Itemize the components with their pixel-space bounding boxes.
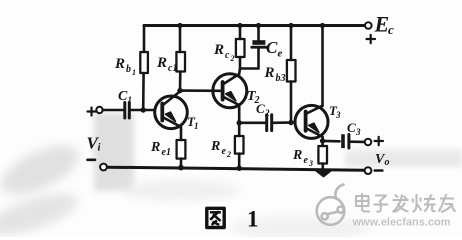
node rail-Rc1 bbox=[177, 23, 182, 28]
capacitor C2 bbox=[265, 115, 268, 131]
wire Rb1 bottom bbox=[142, 73, 145, 110]
wire top supply rail bbox=[144, 24, 365, 27]
svg-text:1: 1 bbox=[128, 95, 133, 105]
svg-text:3: 3 bbox=[335, 110, 341, 120]
wire Rb3 bottom bbox=[290, 82, 293, 123]
zi bbox=[374, 196, 389, 212]
watermark text: dian zi fa shao you (simplified glyph shapes) bbox=[356, 193, 456, 212]
wire T3 collector bbox=[321, 26, 324, 107]
wire T1 collector to T2 base bbox=[180, 89, 221, 92]
wire C2 to T3 base bbox=[273, 121, 295, 124]
hanzi TU (figure) drawn as strokes bbox=[207, 208, 224, 227]
svg-text:C: C bbox=[347, 120, 356, 135]
wire Re3 to ground bbox=[321, 164, 324, 170]
wire Rc2 bottom to T2 collector bbox=[239, 57, 240, 75]
svg-text:C: C bbox=[256, 101, 265, 116]
terminal Vo minus bbox=[365, 167, 372, 174]
capacitor C3 bbox=[341, 134, 345, 148]
svg-text:c: c bbox=[388, 22, 394, 37]
svg-text:R: R bbox=[150, 140, 160, 155]
resistor Rc1 bbox=[176, 52, 185, 72]
wire Re1 to ground rail bbox=[180, 159, 183, 168]
node T1 collector bbox=[177, 88, 182, 93]
svg-text:3: 3 bbox=[308, 159, 313, 168]
svg-text:1: 1 bbox=[247, 207, 259, 232]
svg-text:o: o bbox=[385, 157, 390, 168]
wire Rc1 bottom bbox=[179, 72, 182, 91]
wire Ce bottom branch bbox=[240, 49, 259, 69]
svg-text:1: 1 bbox=[194, 121, 199, 131]
svg-text:2: 2 bbox=[230, 54, 235, 63]
transistor T1 bbox=[155, 93, 188, 129]
svg-text:e1: e1 bbox=[162, 147, 171, 158]
svg-text:e: e bbox=[278, 48, 283, 60]
svg-text:c: c bbox=[225, 50, 230, 61]
svg-text:C: C bbox=[118, 89, 128, 104]
paper background smudges bbox=[0, 113, 462, 240]
node rail-T3 collector bbox=[320, 23, 325, 28]
svg-text:www.elecfans.com: www.elecfans.com bbox=[352, 217, 451, 229]
svg-text:3: 3 bbox=[355, 127, 361, 137]
watermark logo bbox=[317, 185, 345, 225]
resistor Re3 bbox=[318, 146, 327, 164]
caption: 图 1 bbox=[207, 207, 259, 232]
capacitor Ce (electrolytic) bbox=[252, 40, 265, 45]
svg-text:C: C bbox=[266, 38, 278, 57]
node rail-Rb3 bbox=[288, 23, 293, 28]
node rail-Rc2 bbox=[237, 23, 242, 28]
node Rb3 base T3 bbox=[288, 120, 293, 125]
resistor Rb3 bbox=[287, 60, 296, 82]
svg-text:b3: b3 bbox=[276, 73, 286, 84]
svg-text:E: E bbox=[374, 12, 390, 37]
shao bbox=[413, 194, 436, 212]
svg-text:2: 2 bbox=[264, 108, 270, 118]
wire T2 emitter down bbox=[238, 105, 241, 136]
minus mark Vi bbox=[88, 159, 96, 162]
fa bbox=[393, 195, 409, 213]
wire Rc1 top bbox=[179, 26, 182, 53]
terminal Vo plus bbox=[365, 139, 372, 146]
wire Rb3 top bbox=[290, 26, 293, 61]
svg-text:R: R bbox=[210, 139, 220, 154]
plus mark Ec bbox=[367, 35, 376, 43]
terminal Ec bbox=[365, 22, 372, 29]
node Re2 ground bbox=[236, 165, 242, 171]
transistor T2 bbox=[213, 74, 247, 108]
wire emitter to C2 bbox=[239, 122, 265, 125]
node base T1 bbox=[141, 107, 146, 112]
svg-text:e: e bbox=[304, 155, 309, 166]
wire Ce top bbox=[257, 26, 260, 41]
node Re1 ground bbox=[178, 165, 184, 171]
wire Rb1 top bbox=[143, 26, 146, 53]
resistor Re1 bbox=[177, 140, 186, 159]
terminal Vi plus bbox=[96, 107, 102, 113]
plus mark Vi bbox=[88, 108, 96, 116]
terminal Vi minus bbox=[100, 164, 107, 171]
resistor Re2 bbox=[235, 136, 244, 154]
wire T1 emitter down bbox=[180, 127, 183, 140]
svg-text:c1: c1 bbox=[168, 63, 177, 74]
wire Rc2 top bbox=[239, 26, 242, 40]
wire C3 to Vo bbox=[350, 140, 364, 143]
minus mark Vo bbox=[375, 169, 383, 172]
svg-text:R: R bbox=[156, 55, 167, 71]
svg-text:2: 2 bbox=[226, 150, 231, 159]
capacitor C1 bbox=[123, 103, 126, 119]
ground symbol bbox=[316, 170, 332, 176]
transistor T3 bbox=[295, 105, 328, 138]
wire Re2 to ground rail bbox=[238, 154, 241, 169]
wire ground rail bottom bbox=[107, 167, 364, 170]
node T2 emitter / C2 bbox=[237, 120, 242, 125]
svg-text:R: R bbox=[264, 65, 275, 81]
wire C1 to base node bbox=[131, 109, 155, 112]
resistor Rc2 bbox=[236, 39, 245, 57]
you bbox=[439, 194, 456, 212]
resistor Rb1 bbox=[140, 52, 148, 73]
plus mark Vo bbox=[375, 137, 384, 145]
svg-text:R: R bbox=[292, 148, 302, 163]
svg-text:1: 1 bbox=[132, 68, 136, 77]
svg-text:R: R bbox=[213, 42, 224, 58]
node T3 emitter / C3 bbox=[320, 138, 325, 143]
wire T3 emitter bbox=[321, 137, 324, 146]
dian bbox=[356, 193, 370, 212]
wire input to C1 bbox=[103, 109, 123, 112]
svg-text:e: e bbox=[222, 146, 227, 157]
wire emitter to C3 bbox=[323, 140, 340, 143]
node rail-Ce bbox=[256, 23, 261, 28]
svg-text:b: b bbox=[126, 64, 131, 75]
svg-text:R: R bbox=[114, 56, 125, 72]
